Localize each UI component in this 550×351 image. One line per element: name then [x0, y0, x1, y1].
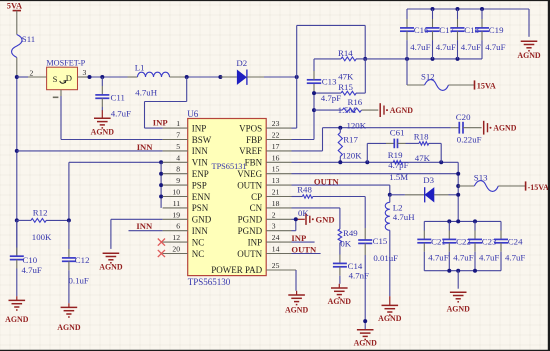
- svg-text:S13: S13: [474, 173, 488, 183]
- svg-text:VREF: VREF: [239, 146, 262, 156]
- wire FBP net: [292, 110, 315, 139]
- svg-text:0.01uF: 0.01uF: [373, 253, 398, 263]
- svg-text:INN: INN: [192, 226, 208, 236]
- svg-text:7: 7: [176, 131, 180, 140]
- net label INN (pin5): [137, 142, 154, 152]
- svg-text:R15: R15: [338, 82, 353, 92]
- svg-text:21: 21: [272, 188, 280, 197]
- node INP tap junction: [185, 75, 189, 79]
- svg-text:5VA: 5VA: [7, 2, 22, 11]
- svg-text:R17: R17: [343, 135, 358, 145]
- inductor L1: [135, 63, 170, 98]
- node PGND junction: [294, 217, 298, 221]
- ground AGND bar at C20: [484, 121, 517, 135]
- label 0K at PGND: [298, 208, 309, 218]
- capacitor C22: [442, 221, 473, 270]
- svg-text:AGND: AGND: [447, 305, 471, 314]
- svg-text:ENP: ENP: [192, 169, 209, 179]
- svg-text:C24: C24: [508, 236, 523, 246]
- svg-text:AGND: AGND: [91, 128, 115, 137]
- svg-text:C13: C13: [322, 77, 337, 87]
- resistor R15: [314, 59, 365, 95]
- ground AGND top right: [517, 9, 541, 60]
- power port 15VA: [475, 80, 496, 90]
- wire INN pin5: [17, 150, 163, 152]
- node ENP junction: [159, 172, 163, 176]
- node C16 bottom junction: [405, 57, 409, 61]
- svg-text:15VA: 15VA: [477, 81, 496, 90]
- node C22 bottom junction: [447, 269, 451, 273]
- wire BSW gate net: [61, 96, 163, 140]
- svg-text:24: 24: [272, 233, 280, 242]
- wire INP net: [145, 77, 187, 128]
- ground AGND at C12: [57, 303, 81, 332]
- resistor R48: [292, 185, 366, 199]
- svg-text:AGND: AGND: [354, 338, 378, 347]
- capacitor C18: [451, 9, 482, 59]
- svg-text:C20: C20: [456, 112, 471, 122]
- svg-text:0.1uF: 0.1uF: [69, 276, 89, 286]
- resistor R12: [17, 208, 69, 242]
- svg-text:PSP: PSP: [192, 180, 207, 190]
- wire PGND net: [292, 219, 305, 230]
- node 5VA-drain junction: [15, 75, 19, 79]
- svg-text:18: 18: [272, 199, 280, 208]
- no-connect X pin12: [158, 239, 165, 246]
- node C22 top junction: [447, 219, 451, 223]
- svg-text:C19: C19: [489, 25, 504, 35]
- wire neg cap bank top rail: [424, 220, 501, 222]
- capacitor C11: [95, 77, 131, 118]
- node C18 top junction: [456, 7, 460, 11]
- svg-text:NC: NC: [192, 249, 205, 259]
- svg-text:6: 6: [176, 222, 180, 231]
- ground AGND at C11: [91, 110, 115, 136]
- node C23 top junction: [473, 219, 477, 223]
- svg-text:GND: GND: [192, 215, 212, 225]
- net label INP (pin24): [291, 233, 306, 243]
- node VPOS junction: [295, 75, 299, 79]
- svg-text:0.22uF: 0.22uF: [457, 135, 482, 145]
- svg-text:47K: 47K: [415, 153, 431, 163]
- svg-text:FBN: FBN: [245, 158, 263, 168]
- node D2 anode junction: [218, 75, 222, 79]
- wire negative rail vertical: [457, 162, 459, 221]
- wire INP pin24: [292, 241, 315, 243]
- node R14 right junction: [363, 57, 367, 61]
- svg-text:C17: C17: [439, 25, 454, 35]
- svg-text:4.7uF: 4.7uF: [436, 42, 456, 52]
- svg-text:D2: D2: [236, 58, 247, 68]
- svg-text:AGND: AGND: [493, 124, 517, 133]
- svg-text:23: 23: [272, 119, 280, 128]
- svg-text:TPS65131: TPS65131: [212, 162, 247, 171]
- resistor R17: [338, 120, 366, 162]
- node R12 right junction: [67, 218, 71, 222]
- ground AGND at L2: [378, 296, 402, 323]
- ground AGND bar at R16: [380, 103, 413, 117]
- capacitor C13: [307, 59, 341, 110]
- solder bridge S11: [12, 34, 36, 77]
- svg-text:VIN: VIN: [192, 158, 208, 168]
- capacitor C14: [333, 261, 369, 284]
- svg-text:C18: C18: [464, 25, 479, 35]
- svg-text:INN: INN: [136, 221, 153, 231]
- resistor R49: [338, 228, 358, 263]
- node D3 cathode junction: [456, 193, 460, 197]
- svg-text:C11: C11: [111, 92, 125, 102]
- capacitor C23: [468, 221, 499, 270]
- ground AGND at pin19: [99, 253, 123, 272]
- svg-text:INP: INP: [248, 237, 263, 247]
- svg-text:3: 3: [83, 68, 87, 77]
- node C18 bottom junction: [456, 57, 460, 61]
- node 5VA-R12 junction: [15, 218, 19, 222]
- wire INN pin6: [129, 230, 163, 232]
- svg-text:13: 13: [272, 176, 280, 185]
- wire POWER PAD ground: [295, 270, 297, 291]
- capacitor C16: [400, 9, 431, 59]
- net label OUTN (pin13): [314, 177, 340, 187]
- svg-text:2: 2: [30, 69, 34, 78]
- resistor R16: [314, 97, 378, 115]
- op-amp U6 TPS65130 regulator IC: [163, 109, 296, 287]
- wire drain node: [90, 76, 138, 78]
- ground AGND at C10: [5, 296, 29, 324]
- svg-text:0K: 0K: [298, 208, 309, 218]
- svg-text:C22: C22: [456, 236, 471, 246]
- svg-text:R12: R12: [33, 208, 48, 218]
- node C11 junction: [100, 75, 104, 79]
- ground GND bar at PGND: [306, 214, 335, 225]
- wire CN net: [292, 208, 340, 229]
- svg-text:INP: INP: [192, 123, 207, 133]
- svg-text:OUTN: OUTN: [291, 244, 317, 254]
- label 1.5M: [389, 172, 408, 182]
- svg-text:47K: 47K: [338, 71, 354, 81]
- svg-text:C16: C16: [414, 25, 429, 35]
- node C61 branch junction: [365, 160, 369, 164]
- net label OUTN (pin14): [291, 244, 317, 254]
- svg-text:100K: 100K: [32, 232, 52, 242]
- svg-text:INP: INP: [153, 117, 168, 127]
- ground AGND at C15: [354, 330, 378, 348]
- svg-text:4.7uF: 4.7uF: [505, 252, 525, 262]
- capacitor C12: [62, 220, 90, 303]
- wire FBN net: [292, 161, 459, 163]
- svg-text:NC: NC: [192, 237, 205, 247]
- svg-text:AGND: AGND: [99, 263, 123, 272]
- solder bridge S12: [407, 59, 474, 90]
- svg-text:19: 19: [172, 210, 180, 219]
- svg-text:16: 16: [272, 153, 280, 162]
- node bank AGND junction: [456, 269, 460, 273]
- svg-text:4.7uF: 4.7uF: [461, 42, 481, 52]
- svg-text:OUTN: OUTN: [237, 180, 262, 190]
- svg-text:2: 2: [272, 210, 276, 219]
- wire OUTN pin14: [292, 253, 321, 255]
- svg-text:4.7uF: 4.7uF: [453, 252, 473, 262]
- svg-text:CP: CP: [251, 192, 262, 202]
- svg-text:C21: C21: [431, 236, 446, 246]
- wire source to 5VA rail: [17, 76, 28, 78]
- svg-text:9: 9: [176, 176, 180, 185]
- svg-text:4.7uF: 4.7uF: [428, 252, 448, 262]
- ground AGND at POWER PAD: [285, 291, 309, 315]
- svg-text:4.7nF: 4.7nF: [349, 271, 369, 281]
- svg-text:25: 25: [272, 261, 280, 270]
- svg-text:120K: 120K: [347, 120, 367, 130]
- node C23 bottom junction: [473, 269, 477, 273]
- svg-text:20: 20: [172, 245, 180, 254]
- svg-text:4.7uH: 4.7uH: [135, 87, 157, 97]
- transistor Q1 MOSFET-P: [28, 58, 90, 97]
- svg-text:10: 10: [172, 188, 180, 197]
- svg-text:AGND: AGND: [378, 314, 402, 323]
- svg-text:0K: 0K: [340, 238, 351, 248]
- no-connect X pin20: [158, 250, 165, 257]
- node PSP junction: [159, 183, 163, 187]
- svg-text:POWER PAD: POWER PAD: [211, 265, 262, 275]
- wire 5VA rail: [16, 77, 18, 256]
- net label INN (pin6): [136, 221, 153, 231]
- svg-text:AGND: AGND: [285, 305, 309, 314]
- ground AGND at cap bank: [447, 271, 471, 314]
- svg-text:MOSFET-P: MOSFET-P: [46, 58, 85, 67]
- wire VREF net: [292, 128, 451, 151]
- svg-text:BSW: BSW: [192, 135, 212, 145]
- svg-text:PGND: PGND: [238, 226, 263, 236]
- resistor R18: [414, 132, 441, 163]
- svg-text:4.7uH: 4.7uH: [393, 212, 415, 222]
- svg-text:R14: R14: [338, 48, 353, 58]
- svg-text:1: 1: [176, 119, 180, 128]
- svg-text:U6: U6: [187, 109, 198, 119]
- svg-text:GND: GND: [316, 214, 335, 224]
- svg-text:-15VA: -15VA: [528, 183, 549, 192]
- node C17 top junction: [431, 7, 435, 11]
- svg-text:4.7pF: 4.7pF: [388, 160, 408, 170]
- capacitor C24: [494, 221, 525, 270]
- svg-text:D3: D3: [423, 175, 434, 185]
- resistor R19: [388, 150, 409, 170]
- svg-text:R16: R16: [348, 97, 363, 107]
- svg-text:22: 22: [272, 131, 280, 140]
- svg-text:17: 17: [272, 142, 280, 151]
- node C17 bottom junction: [431, 57, 435, 61]
- ground AGND at C14: [328, 284, 352, 306]
- wire enable bus: [160, 162, 162, 208]
- node R17 bottom junction: [338, 160, 342, 164]
- node VNEG junction: [456, 172, 460, 176]
- resistor R14: [314, 48, 365, 82]
- svg-text:4.7uF: 4.7uF: [479, 252, 499, 262]
- svg-text:12: 12: [172, 233, 180, 242]
- svg-text:C61: C61: [390, 127, 405, 137]
- svg-text:AGND: AGND: [57, 323, 81, 332]
- svg-text:PSN: PSN: [192, 203, 209, 213]
- wire VPOS rail: [365, 58, 482, 60]
- node R16 left junction: [312, 108, 316, 112]
- svg-text:4.7pF: 4.7pF: [321, 93, 341, 103]
- svg-text:120K: 120K: [342, 151, 362, 161]
- svg-text:R48: R48: [297, 185, 312, 195]
- node L2 top junction: [388, 193, 392, 197]
- svg-text:PGND: PGND: [238, 215, 263, 225]
- svg-text:AGND: AGND: [390, 106, 414, 115]
- wire VNEG net: [292, 173, 459, 175]
- wire GND pin19: [111, 219, 163, 249]
- svg-text:R19: R19: [388, 150, 403, 160]
- diode D3: [390, 175, 458, 202]
- solder bridge S13: [458, 173, 525, 192]
- wire OUTN pin13: [292, 185, 390, 195]
- svg-text:3: 3: [272, 222, 276, 231]
- svg-text:INP: INP: [291, 233, 306, 243]
- node OUTN S13 junction: [456, 184, 460, 188]
- node VIN bus junction: [159, 160, 163, 164]
- node C19 top junction: [480, 7, 484, 11]
- svg-text:4.7uF: 4.7uF: [111, 108, 131, 118]
- svg-text:4: 4: [176, 153, 180, 162]
- svg-text:CN: CN: [250, 203, 263, 213]
- svg-text:FBP: FBP: [246, 135, 262, 145]
- svg-text:TPS565130: TPS565130: [188, 277, 231, 287]
- svg-text:11: 11: [173, 199, 181, 208]
- svg-text:D: D: [66, 73, 72, 83]
- wire D2 cathode to VPOS node: [264, 76, 297, 78]
- svg-text:4.7uF: 4.7uF: [410, 42, 430, 52]
- svg-text:S11: S11: [22, 34, 35, 44]
- capacitor C17: [426, 9, 457, 59]
- node R18 drop junction: [439, 160, 443, 164]
- svg-text:AGND: AGND: [5, 315, 29, 324]
- svg-text:R49: R49: [343, 228, 358, 238]
- capacitor C20: [451, 112, 482, 145]
- node R15 left junction: [312, 91, 316, 95]
- svg-text:ENN: ENN: [192, 192, 211, 202]
- wire VIN net: [69, 162, 163, 220]
- svg-text:14: 14: [272, 245, 280, 254]
- svg-text:INN: INN: [137, 142, 154, 152]
- capacitor C15: [358, 197, 398, 330]
- wire L1 to D2: [170, 76, 221, 78]
- svg-text:4.7uF: 4.7uF: [485, 42, 505, 52]
- svg-text:C12: C12: [75, 255, 90, 265]
- svg-text:C10: C10: [23, 255, 38, 265]
- svg-text:8: 8: [176, 165, 180, 174]
- capacitor C19: [475, 9, 506, 59]
- svg-text:INN: INN: [192, 146, 208, 156]
- svg-text:4.7uF: 4.7uF: [22, 265, 42, 275]
- svg-text:C15: C15: [373, 236, 388, 246]
- svg-text:L1: L1: [135, 63, 145, 73]
- svg-text:AGND: AGND: [517, 51, 541, 60]
- svg-text:OUTN: OUTN: [237, 249, 262, 259]
- capacitor C10: [10, 220, 42, 296]
- inductor L2: [385, 195, 415, 296]
- capacitor C61: [367, 127, 415, 162]
- capacitor C21: [417, 221, 448, 270]
- node R17 top junction: [338, 126, 342, 130]
- node C15 ground junction: [363, 319, 367, 323]
- power port -15VA: [526, 181, 549, 192]
- node drain stub junction: [88, 75, 92, 79]
- svg-text:OUTN: OUTN: [314, 177, 340, 187]
- power port 5VA: [7, 2, 22, 35]
- wire VPOS riser: [292, 25, 366, 128]
- svg-text:S: S: [53, 74, 58, 84]
- node 5VA-INN junction: [15, 149, 19, 153]
- label 47K for R18: [415, 153, 431, 163]
- svg-text:1.5M: 1.5M: [389, 172, 408, 182]
- svg-text:VPOS: VPOS: [239, 123, 262, 133]
- net label INP (pin1): [153, 117, 168, 127]
- svg-text:5: 5: [176, 142, 180, 151]
- diode D2: [220, 58, 264, 85]
- node ENN junction: [159, 195, 163, 199]
- node neg feed junction: [456, 219, 460, 223]
- svg-text:R18: R18: [414, 132, 429, 142]
- wire neg cap bank bottom rail: [424, 270, 501, 272]
- svg-text:AGND: AGND: [328, 297, 352, 306]
- svg-text:15: 15: [272, 165, 280, 174]
- svg-text:C23: C23: [482, 236, 497, 246]
- wire output cap top rail: [407, 8, 529, 10]
